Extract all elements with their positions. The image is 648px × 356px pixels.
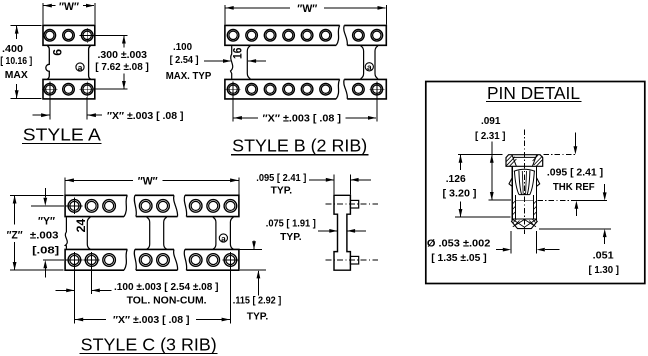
svg-text:.100 ±.003 [ 2.54 ±.08 ]: .100 ±.003 [ 2.54 ±.08 ] [114,282,219,293]
Style B left rib: left body edge with break wave [231,46,233,79]
svg-text:.115 [ 2.92 ]: .115 [ 2.92 ] [233,295,281,306]
dimension .075 TYP: arrows [318,230,329,232]
side view pin centerlines [326,204,379,260]
svg-text:6: 6 [50,49,64,56]
Style C top strip pins [68,200,81,213]
svg-text:Ø .053 ±.002: Ø .053 ±.002 [427,238,491,249]
dimension .300: dimension line + arrows [123,36,125,48]
pin flange funnel [512,155,537,167]
svg-text:″W″: ″W″ [297,3,317,15]
pin tail chamfer hatching [513,219,535,225]
dimension .126: bottom extension line [455,216,511,218]
Style C top-left pin crosshair [65,198,83,214]
Style B top strip right part [344,25,386,45]
side view body (I profile) [334,195,350,270]
pin retention barbs [509,178,540,187]
dimension W (Style C): extension lines [64,178,66,195]
svg-text:PIN DETAIL: PIN DETAIL [487,83,580,103]
svg-text:STYLE A: STYLE A [23,125,101,145]
Style A bottom strip [43,79,95,99]
svg-text:a: a [78,62,83,72]
dimension X (Style C): extension lines [73,268,75,323]
pin tail chamfer [512,221,538,229]
svg-text:.126: .126 [446,174,466,185]
Style B bottom strip left part break edge [336,79,340,99]
Style B top strip left part [225,25,340,45]
svg-text:″X″ ±.003 [ .08 ]: ″X″ ±.003 [ .08 ] [107,111,184,122]
dimension X (Style B): extension lines [232,97,234,122]
svg-text:[ 7.62 ±.08 ]: [ 7.62 ±.08 ] [95,62,149,73]
dimension .400 MAX: dimension line + arrows [16,26,18,39]
svg-text:″W″: ″W″ [59,1,79,13]
Style A bottom-left pin crosshair [42,82,57,97]
dimension .115 TYP: extension lines [240,248,263,250]
dimension Y: extension lines [31,205,64,207]
Style B top strip pins [227,30,239,42]
Style A body [46,46,91,79]
PIN DETAIL border box [426,82,645,284]
pin contact clip petals [514,169,535,171]
svg-text:.075 [ 1.91 ]: .075 [ 1.91 ] [266,218,316,229]
svg-text:[ 2.31 ]: [ 2.31 ] [475,131,506,142]
dimension Z: extension lines [10,194,63,196]
svg-text:[ 1.35 ±.05 ]: [ 1.35 ±.05 ] [431,253,487,264]
Style A bottom strip pins [44,83,56,95]
pin barrel inner walls [514,195,516,219]
Style B bottom strip right part break edge [344,79,348,99]
dimension W (Style B): dimension line + arrows [226,7,291,9]
dimension .095 THK REF: bottom reference line [538,200,577,202]
dimension X (Style A): extension lines [49,97,51,120]
dimension .100 TOL NON-CUM: extension line [91,268,93,294]
Style C top strip segment 2 [135,195,178,216]
dimension .095 TYP: arrows [309,179,326,181]
svg-text:24: 24 [74,219,88,233]
Style C bottom strip pins [68,254,81,267]
svg-text:.051: .051 [593,251,614,262]
svg-text:MAX. TYP: MAX. TYP [166,71,212,82]
svg-text:±.003: ±.003 [30,231,59,242]
svg-text:TYP.: TYP. [247,311,269,322]
dimension .100: arrows [56,289,67,291]
Style A top strip pins [44,30,56,42]
dimension .300: extension lines [93,34,128,36]
Style B bottom-left pin crosshair [226,82,241,97]
dimension X (Style B): dimension line + arrows [234,117,258,119]
dimension .051: extension line [539,228,611,230]
dimension Z: dimension line + arrows [14,196,16,225]
svg-text:″Y″: ″Y″ [38,215,55,227]
svg-text:TYP.: TYP. [271,185,293,196]
svg-text:.100: .100 [173,42,192,53]
svg-text:MAX: MAX [5,70,28,81]
Style C left rib: left body edge with break wave [65,217,67,249]
Style B top strip left part break edge [336,25,340,45]
Style A pin1 crosshair (top right) [80,28,93,43]
svg-text:TYP.: TYP. [280,232,302,243]
Style B bottom strip pins [227,83,239,95]
Style A top strip [43,25,95,45]
svg-text:a: a [221,233,226,243]
svg-text:.400: .400 [2,44,23,55]
Style B orientation mark (circled a) [365,63,373,71]
pin flange outline [506,155,543,167]
svg-text:.095 [ 2.41 ]: .095 [ 2.41 ] [256,173,306,184]
svg-text:[ 3.20 ]: [ 3.20 ] [443,188,477,199]
svg-text:″W″: ″W″ [138,176,158,188]
Style B top strip right part break edge [344,25,348,45]
svg-text:″X″ ±.003 [ .08 ]: ″X″ ±.003 [ .08 ] [263,113,342,124]
Style C right rib [213,217,216,249]
Style C bottom pin crosshairs [65,252,83,268]
dimension X (Style A): dimension line + arrows [33,114,50,116]
dimension .095 THK REF: arrows [574,133,576,147]
dimension W (Style A): extension lines [42,3,44,25]
Style C bottom strip segment 2 [135,249,178,270]
pin barrel wall hatching [512,201,536,215]
dimension diameter .053: extension lines [510,231,512,254]
Style B left rib: right edge [247,46,250,79]
svg-text:″Z″: ″Z″ [7,229,23,241]
dimension X (Style C): dimension line + arrows [75,319,106,321]
pin flange hatching [506,155,542,166]
pin tail tip centerline tick [523,229,525,234]
svg-text:16: 16 [231,47,244,59]
dimension W (Style C): dimension line + arrows [66,179,133,181]
svg-text:[ 1.30 ]: [ 1.30 ] [588,265,619,276]
Style C left rib: right edge [87,217,90,249]
pin barrel outer walls [511,166,513,220]
Style C bottom strip segment 3 [185,249,239,270]
svg-text:a: a [367,62,372,72]
side view top pin [350,200,358,208]
dimension .051: arrows [604,184,606,193]
dimension .091: extension lines [458,154,502,156]
svg-text:.091: .091 [481,116,501,127]
Style A bottom-right pin crosshair [80,82,93,97]
svg-text:STYLE B (2 RIB): STYLE B (2 RIB) [232,136,367,156]
dimension .095 THK REF: top reference line [544,154,577,156]
pin clip seat line [515,199,533,201]
dimension .091: dimension line + arrows [491,142,493,200]
svg-text:TOL. NON-CUM.: TOL. NON-CUM. [127,295,207,306]
Style C orientation mark (circled a) [219,234,227,242]
svg-text:[.08]: [.08] [32,245,59,256]
Style C middle rib [147,217,150,249]
Style B right rib [361,46,364,79]
dimension .400 MAX: extension lines [11,24,42,26]
svg-text:.095 [ 2.41 ]: .095 [ 2.41 ] [547,167,603,178]
Style C top strip segment 1 [65,195,127,216]
dimension .115 TYP: arrows [253,241,255,249]
Style B bottom strip right part [344,79,386,99]
pin cup bottom [512,218,536,220]
svg-text:[ 2.54 ]: [ 2.54 ] [170,55,199,66]
dimension .126: dimension line + arrows [460,155,462,170]
Style B bottom-right pin crosshair [369,82,384,97]
dimension .095 TYP: extension lines [333,175,335,195]
Style A orientation mark (circled a) [76,63,84,71]
dimension W (Style A): dimension line + arrows [44,5,56,7]
svg-text:STYLE C (3 RIB): STYLE C (3 RIB) [81,334,217,354]
svg-text:THK REF: THK REF [553,182,595,193]
Style C bottom strip segment 1 [65,249,127,270]
svg-text:.300 ±.003: .300 ±.003 [98,50,148,61]
pin centerline [523,130,525,235]
leader .100 arrows at rib edges [204,60,231,62]
Style C top strip segment 3 [185,195,239,216]
pin clip slot lines [522,171,526,195]
svg-text:[ 10.16 ]: [ 10.16 ] [0,56,32,67]
Style B bottom strip left part [225,79,340,99]
dimension diameter .053: arrows [496,249,503,251]
dimension Y: dimension line + arrows [44,188,46,198]
svg-text:″X″ ±.003 [ .08 ]: ″X″ ±.003 [ .08 ] [113,315,190,326]
dimension W (Style B): extension lines [224,5,226,24]
side view bottom pin [350,256,358,264]
